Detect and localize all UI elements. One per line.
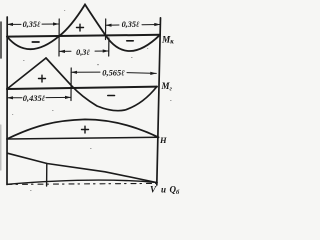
svg-text:VиQб: VиQб [150,185,180,196]
tick at right crossing upper [105,19,107,40]
Mk right negative curve [106,35,161,51]
svg-text:0,435ℓ: 0,435ℓ [23,94,46,103]
Mk baseline [7,35,160,37]
Mg right slope and negative curve [46,58,157,111]
svg-text:0,35ℓ: 0,35ℓ [23,20,41,29]
tick at 0.435l crossing [70,68,72,101]
scan gutter smudge left edge faint [0,125,2,170]
svg-text:0,565ℓ: 0,565ℓ [102,68,125,77]
H baseline [7,137,159,139]
dimension line 0,35l left [7,23,59,25]
Mk central positive peak [59,5,106,37]
svg-text:0,35ℓ: 0,35ℓ [122,20,140,29]
Q beam curve [7,180,157,184]
bottom axis dash-dot line [7,183,157,184]
dimension line 0,565l [71,72,156,73]
minus sign Mg [108,95,115,97]
minus sign Mk right [127,40,133,42]
Mg baseline [7,87,157,89]
dimension line 0,435l [7,96,71,98]
plus sign H [82,126,89,133]
Mk left negative curve [7,36,59,49]
scan speckles [12,10,172,191]
left support vertical line [6,17,8,185]
plus sign Mk [77,24,84,31]
svg-text:0,3ℓ: 0,3ℓ [76,48,90,57]
tick at 0.3l right end [108,38,110,56]
scan gutter smudge left edge dark [0,22,2,58]
H influence curve [7,119,159,139]
svg-text:Н: Н [159,135,167,145]
bottom tick at section 1 [46,164,48,187]
dimension line 0,35l right [106,24,161,27]
Mg triangle left slope [7,58,46,89]
V top line [8,153,157,182]
dimension line 0,3l [59,50,109,52]
plus sign Mg [39,75,46,82]
right support vertical line [157,18,161,185]
tick at 0.35l left crossing [58,19,60,56]
minus sign Mk left [32,41,39,43]
